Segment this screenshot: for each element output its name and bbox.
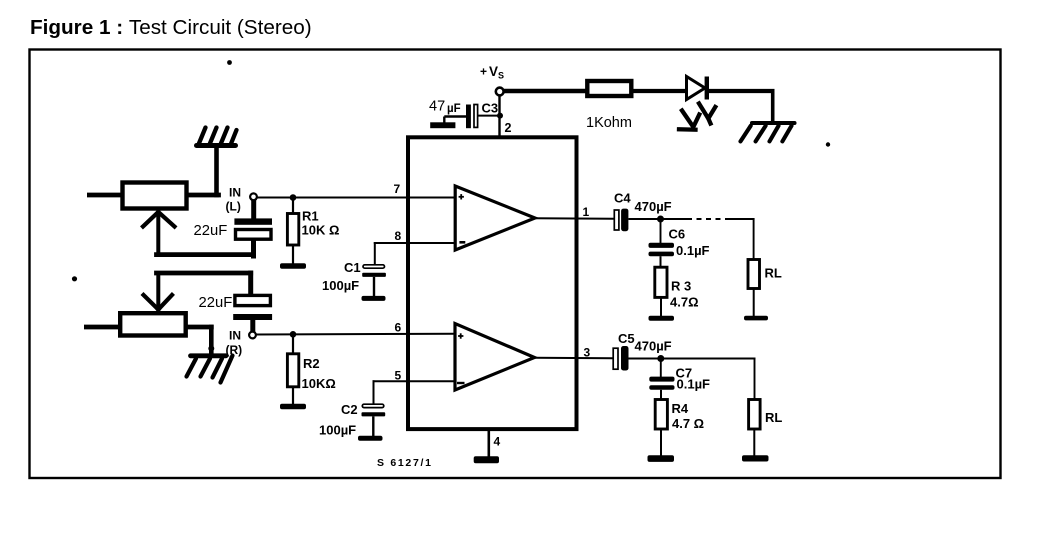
- svg-text:470µF: 470µF: [635, 199, 672, 214]
- wire R2 to ground: [292, 387, 294, 405]
- svg-text:22uF: 22uF: [199, 295, 233, 311]
- wire junction to C6: [660, 219, 662, 243]
- svg-text:IN: IN: [229, 186, 241, 200]
- svg-text:1Kohm: 1Kohm: [586, 115, 632, 131]
- frame border: [30, 50, 1001, 479]
- ground bar pin 4: [474, 456, 499, 463]
- wire pin 1 to C4: [534, 217, 614, 220]
- svg-text:V: V: [489, 64, 498, 79]
- capacitor C4 left plate hollow: [614, 210, 619, 230]
- resistor R3 body: [655, 267, 667, 297]
- svg-text:6: 6: [395, 321, 402, 335]
- ground bar C1: [362, 296, 386, 301]
- svg-text:1: 1: [583, 205, 590, 219]
- capacitor 22uF (L) top plate solid: [234, 218, 272, 224]
- ground bar C2: [358, 436, 383, 441]
- capacitor C1 bottom plate solid: [362, 273, 386, 277]
- stray dot top: [227, 60, 232, 65]
- wire C3 to chassis bar: [444, 117, 466, 124]
- ground top left hatches: [199, 128, 237, 146]
- wire cap to IN(R) terminal: [250, 320, 255, 332]
- terminal IN (R): [249, 332, 256, 339]
- svg-text:100µF: 100µF: [322, 278, 359, 293]
- wire pot P2 right to ground: [186, 327, 211, 352]
- ground bottom left hatches: [187, 356, 233, 383]
- svg-text:C5: C5: [618, 331, 635, 346]
- svg-text:(R): (R): [226, 343, 243, 357]
- ground bar RL1: [744, 316, 768, 321]
- capacitor C3 right plate: [474, 105, 478, 128]
- capacitor C7 bottom plate: [649, 385, 674, 390]
- wire R3 to ground: [660, 298, 662, 317]
- SECTION: left inputs: [84, 128, 455, 441]
- svg-text:10K Ω: 10K Ω: [302, 223, 340, 238]
- capacitor C5 right plate solid: [621, 346, 629, 371]
- capacitor C6 top plate: [649, 243, 675, 248]
- wire channel R top elbow: [157, 273, 251, 310]
- svg-text:R2: R2: [303, 356, 320, 371]
- op-amp A1 plus input mark: [459, 194, 464, 199]
- svg-text:IN: IN: [229, 329, 241, 343]
- svg-text:0.1µF: 0.1µF: [676, 243, 710, 258]
- resistor R1 body: [287, 214, 298, 246]
- svg-text:+: +: [480, 65, 487, 79]
- wire junction to R2: [292, 334, 294, 354]
- svg-text:22uF: 22uF: [194, 223, 228, 239]
- wire 1Kohm to LED: [634, 89, 689, 93]
- wire C7 to R4: [660, 390, 662, 400]
- SECTION: top supply: [429, 64, 795, 141]
- resistor R4 body: [655, 400, 667, 430]
- wire IN(L) to pin 7: [257, 197, 455, 199]
- wire +Vs to 1Kohm resistor: [504, 89, 590, 94]
- capacitor C7 top plate: [649, 377, 674, 382]
- wire pot P1 wiper to cap: [157, 212, 254, 256]
- svg-text:8: 8: [395, 229, 402, 243]
- LED light arrow right: [699, 104, 715, 124]
- resistor 1Kohm: [587, 81, 631, 96]
- svg-text:0.1µF: 0.1µF: [677, 377, 711, 392]
- svg-text:4: 4: [494, 435, 501, 449]
- wire pin 5 to C2: [374, 381, 456, 404]
- wire C5 to RL corner: [629, 359, 755, 401]
- resistor R2 body: [287, 354, 298, 387]
- ground bar R3: [649, 316, 675, 321]
- svg-text:S: S: [498, 71, 504, 81]
- svg-text:10KΩ: 10KΩ: [302, 376, 336, 391]
- stray dot right: [826, 142, 830, 146]
- svg-text:7: 7: [394, 182, 401, 196]
- terminal IN (L): [250, 193, 257, 200]
- ground top left bar: [197, 143, 236, 148]
- svg-text:R1: R1: [302, 209, 319, 224]
- ground bar R4: [648, 455, 675, 462]
- svg-text:470µF: 470µF: [635, 339, 672, 354]
- SECTION: IC block: [377, 137, 591, 469]
- capacitor 22uF (R) top plate hollow: [235, 295, 271, 305]
- junction IN(L)/R1: [290, 194, 297, 201]
- capacitor C6 bottom plate: [649, 252, 675, 257]
- pot P1 wiper arrow: [143, 212, 175, 227]
- junction pot P2 ground: [208, 346, 214, 352]
- wire pin 3 to C5: [534, 357, 614, 360]
- svg-text:C6: C6: [669, 227, 686, 242]
- wire R1 to ground: [292, 245, 294, 264]
- svg-text:2: 2: [505, 121, 512, 135]
- wire junction to R1: [292, 198, 294, 215]
- wire pot P1 left stub: [87, 193, 122, 198]
- resistor RL2 body: [749, 400, 761, 430]
- svg-text:S 6127/1: S 6127/1: [377, 457, 433, 469]
- potentiometer P2 body: [120, 313, 186, 335]
- label 47 uF: [429, 99, 461, 116]
- svg-text:RL: RL: [765, 266, 782, 281]
- capacitor 22uF (R) bottom plate solid: [233, 314, 272, 320]
- junction IN(R)/R2: [290, 331, 297, 338]
- wire pin 8 to C1: [375, 243, 455, 265]
- wire RL2 to ground: [753, 429, 755, 456]
- svg-text:100µF: 100µF: [319, 423, 356, 438]
- ground bar RL2: [742, 455, 769, 461]
- stray dot left: [72, 276, 77, 281]
- node label IN (L): [226, 186, 242, 214]
- junction C4/C6: [657, 216, 664, 223]
- svg-text:C1: C1: [344, 260, 361, 275]
- svg-text:µF: µF: [447, 103, 461, 115]
- op-amp A2: [455, 324, 535, 391]
- capacitor C4 right plate solid: [621, 209, 628, 232]
- wire C6 to R3: [660, 256, 662, 267]
- node label IN (R): [226, 329, 243, 358]
- op-amp A2 minus input mark: [457, 382, 465, 384]
- svg-text:Figure 1 : Test Circuit (Stere: Figure 1 : Test Circuit (Stereo): [30, 16, 312, 39]
- chassis bar at C3: [430, 122, 455, 128]
- junction C5/C7: [657, 355, 664, 362]
- wire +Vs down to pin 2: [498, 95, 500, 138]
- LED light arrow left: [679, 111, 699, 130]
- capacitor C3 left plate: [466, 105, 471, 129]
- ground earth top right: [741, 123, 795, 141]
- wire pot P2 left stub: [84, 325, 120, 330]
- wire to RL corner: [727, 219, 754, 260]
- svg-text:47: 47: [429, 99, 445, 115]
- IC U1 outline: [408, 137, 577, 429]
- ground bar R1: [280, 263, 306, 268]
- capacitor C2 bottom plate solid: [362, 412, 386, 416]
- wire dashed segment: [687, 218, 727, 220]
- wire RL1 to ground: [753, 289, 755, 317]
- wire IN(R) to pin 6: [256, 333, 455, 336]
- svg-text:4.7 Ω: 4.7 Ω: [672, 416, 704, 431]
- node +Vs label: [480, 64, 504, 81]
- pot P2 wiper arrow: [144, 295, 173, 310]
- svg-text:C3: C3: [482, 101, 499, 116]
- svg-text:(L): (L): [226, 200, 241, 214]
- wire C2 to ground: [372, 416, 374, 436]
- capacitor C1 top plate hollow: [363, 265, 385, 268]
- svg-text:RL: RL: [765, 410, 782, 425]
- wire ground to pot P1: [189, 146, 219, 195]
- op-amp A1: [455, 186, 535, 250]
- wire LED to ground corner: [709, 91, 775, 123]
- svg-text:4.7Ω: 4.7Ω: [670, 295, 699, 310]
- junction node C3/pin2: [497, 113, 503, 119]
- capacitor C5 left plate hollow: [613, 348, 618, 369]
- wire C1 to ground: [373, 277, 375, 297]
- resistor RL1 body: [748, 260, 760, 289]
- capacitor 22uF (L) bottom plate hollow: [236, 230, 272, 240]
- potentiometer P1 body: [123, 183, 187, 209]
- ground bottom left bar: [191, 353, 227, 358]
- wire junction to C7: [660, 359, 662, 378]
- wire C3 to junction: [478, 115, 500, 117]
- pin 4 stub wire: [487, 429, 490, 457]
- SECTION: right outputs: [534, 191, 783, 462]
- wire R4 to ground: [660, 429, 662, 456]
- svg-text:C4: C4: [614, 191, 631, 206]
- terminal +Vs: [496, 88, 504, 96]
- LED D1 triangle: [687, 77, 706, 100]
- svg-text:R4: R4: [672, 401, 689, 416]
- svg-text:R 3: R 3: [671, 279, 691, 294]
- op-amp A2 plus input mark: [458, 333, 463, 338]
- wire cap to IN(L) terminal: [251, 200, 256, 219]
- LED D1 cathode bar: [705, 77, 709, 100]
- svg-text:C2: C2: [341, 402, 358, 417]
- capacitor C2 top plate hollow: [362, 404, 384, 407]
- ground bar R2: [280, 404, 306, 409]
- op-amp A1 minus input mark: [459, 241, 465, 244]
- wire C4 to junction: [628, 218, 687, 220]
